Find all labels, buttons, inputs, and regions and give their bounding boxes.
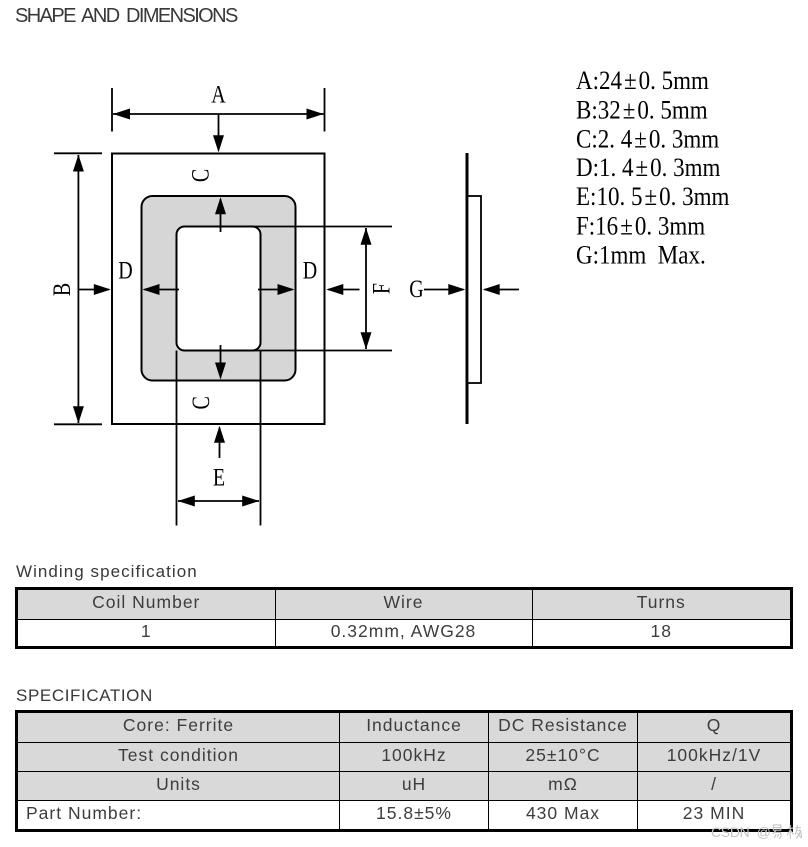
- svg-text:D: D: [303, 256, 317, 284]
- svg-text:D: D: [118, 256, 132, 284]
- svg-text:G: G: [409, 275, 423, 303]
- svg-text:E: E: [213, 463, 225, 491]
- svg-text:F: F: [367, 283, 395, 294]
- svg-text:B: B: [48, 283, 76, 296]
- svg-text:C: C: [187, 396, 215, 409]
- svg-text:A: A: [211, 80, 226, 108]
- svg-text:C: C: [186, 169, 214, 182]
